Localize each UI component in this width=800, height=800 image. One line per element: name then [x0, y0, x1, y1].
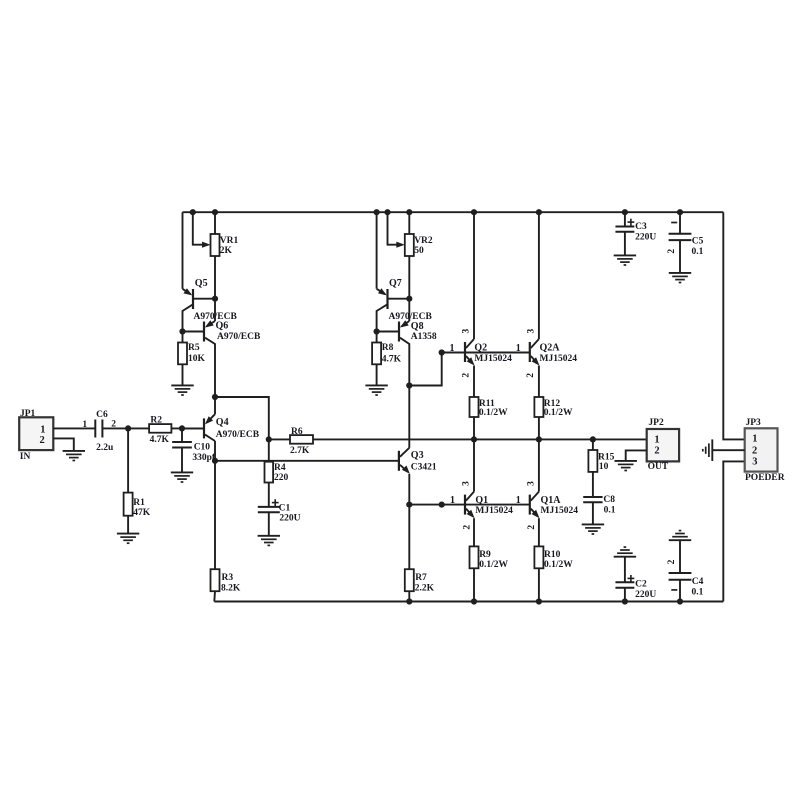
ground above C4: [669, 539, 691, 541]
wire R12 bottom lead: [538, 417, 540, 439]
svg-text:3: 3: [752, 457, 757, 468]
svg-text:0.1: 0.1: [692, 247, 704, 257]
node dot VR2 top at rail: [406, 209, 412, 215]
svg-text:Q6: Q6: [216, 321, 229, 332]
capacitor C2: [615, 581, 634, 583]
wire Q8 collector to Q2 base tie: [409, 353, 441, 386]
wire VR2 wiper: [388, 212, 398, 245]
svg-text:0.1/2W: 0.1/2W: [479, 560, 508, 570]
svg-text:Q2: Q2: [474, 343, 487, 354]
wire output rail: [313, 438, 647, 440]
svg-text:2: 2: [527, 525, 537, 530]
wire JP2 pin2 to ground: [626, 450, 647, 461]
svg-text:Q1A: Q1A: [541, 495, 562, 506]
svg-text:0.1/2W: 0.1/2W: [544, 408, 573, 418]
node dot C5 at rail: [677, 209, 683, 215]
node dot base tie lower: [439, 502, 445, 508]
connector JP2: [647, 429, 679, 461]
node dot R15 at output rail: [590, 436, 596, 442]
svg-text:R15: R15: [598, 452, 615, 462]
wire Q1/Q1A base bus: [409, 504, 530, 506]
svg-text:2: 2: [462, 373, 472, 378]
resistor R8: [372, 343, 381, 365]
svg-text:2: 2: [667, 559, 677, 564]
wire Q1A collector to output rail: [538, 439, 540, 491]
svg-text:0.1/2W: 0.1/2W: [544, 560, 573, 570]
resistor R7: [405, 569, 414, 591]
svg-text:OUT: OUT: [648, 462, 669, 472]
node dot C4 at bottom rail: [677, 598, 683, 604]
node dot Q6 base / R5 top: [179, 328, 185, 334]
node dot Q8 collector drive node: [406, 382, 412, 388]
svg-text:50: 50: [414, 246, 424, 256]
ground at JP3 pin2: [711, 439, 713, 461]
svg-text:2K: 2K: [220, 246, 233, 256]
wire VR2 top lead: [408, 212, 410, 234]
wire C4 top lead: [679, 540, 681, 573]
svg-text:1: 1: [752, 434, 757, 445]
ground at JP2 pin2: [615, 460, 637, 462]
wire R8 bottom lead: [376, 364, 378, 385]
wire C2 top lead: [624, 557, 626, 583]
transistor Q1A: [530, 492, 540, 519]
svg-text:220U: 220U: [635, 590, 656, 600]
svg-text:1: 1: [450, 343, 455, 354]
svg-text:MJ15024: MJ15024: [475, 506, 513, 516]
svg-text:1: 1: [516, 343, 521, 354]
svg-text:2: 2: [667, 249, 677, 254]
svg-text:C3: C3: [635, 222, 647, 232]
svg-text:Q7: Q7: [389, 278, 402, 289]
ground below C10: [171, 471, 193, 473]
wire C10 bottom lead: [181, 448, 183, 473]
ground below R1: [117, 533, 139, 535]
wire +V top rail: [183, 211, 724, 213]
node dot C2 at bottom rail: [622, 598, 628, 604]
wire C10 top lead: [181, 428, 183, 442]
node dot base tie upper: [439, 349, 445, 355]
node dot Q7 base / VR2 bottom: [406, 296, 412, 302]
capacitor C5: [669, 233, 692, 235]
node dot R11/Q1 at output rail: [471, 436, 477, 442]
node dot input bias: [125, 425, 131, 431]
node dot Q2 collector at rail: [471, 209, 477, 215]
svg-text:C3421: C3421: [411, 462, 437, 472]
ground above C2: [614, 556, 636, 558]
svg-text:1: 1: [82, 420, 87, 430]
wire R9 bottom lead: [473, 568, 475, 601]
wire -V bottom rail: [214, 601, 723, 603]
wire R15 to C8: [592, 472, 594, 497]
wire R8 top lead: [376, 332, 378, 343]
svg-text:JP3: JP3: [746, 418, 762, 428]
svg-text:Q4: Q4: [216, 417, 229, 428]
wire R6 node down to VAS line: [268, 439, 270, 460]
svg-text:C4: C4: [692, 577, 704, 587]
node dot R7 at bottom rail: [406, 598, 412, 604]
wire R6 node to R6: [269, 438, 290, 440]
wire Q1 emitter to R9: [473, 518, 475, 546]
connector JP1: [19, 417, 53, 450]
capacitor C8: [583, 496, 602, 498]
wire JP3 pin2 to ground: [712, 449, 744, 451]
wire VR1 bottom lead: [214, 256, 216, 299]
capacitor C4: [669, 572, 692, 574]
svg-text:MJ15024: MJ15024: [540, 354, 578, 364]
wire Q2A collector to rail: [538, 212, 540, 339]
svg-text:0.1: 0.1: [692, 587, 704, 597]
wire Q2A emitter to R12: [538, 366, 540, 397]
node dot VAS at Q4 collector: [212, 458, 218, 464]
svg-text:MJ15024: MJ15024: [474, 354, 512, 364]
wire left rail drop to Q5 emitter: [182, 212, 184, 289]
resistor R1: [124, 493, 133, 516]
svg-text:2.7K: 2.7K: [290, 446, 310, 456]
wire VR2 bottom lead: [408, 256, 410, 299]
svg-text:JP1: JP1: [20, 409, 36, 419]
ground below C5: [669, 272, 691, 274]
resistor R10: [534, 546, 543, 568]
svg-text:Q8: Q8: [411, 321, 424, 332]
svg-text:330pf: 330pf: [192, 453, 216, 463]
svg-text:R2: R2: [150, 415, 162, 425]
capacitor C6: [94, 420, 96, 438]
node dot R6 node: [266, 436, 272, 442]
capacitor C10: [172, 441, 192, 443]
svg-text:220: 220: [274, 473, 289, 483]
node dot R12/Q1A at output rail: [536, 436, 542, 442]
svg-text:2: 2: [40, 435, 45, 446]
VR2 wiper arrow: [396, 242, 405, 248]
VR1 wiper arrow: [202, 242, 211, 248]
svg-text:R8: R8: [382, 343, 394, 353]
wire C4 bottom lead: [679, 580, 681, 602]
potentiometer VR1: [211, 234, 220, 256]
svg-text:POEDER: POEDER: [745, 473, 785, 483]
svg-text:R3: R3: [222, 573, 234, 583]
wire Q3 emitter to R7: [408, 505, 410, 570]
svg-text:C5: C5: [692, 236, 704, 246]
svg-text:220U: 220U: [635, 233, 656, 243]
capacitor C2 plus sign: [628, 577, 635, 579]
transistor Q2: [465, 339, 475, 366]
svg-text:3: 3: [526, 481, 536, 486]
ground below C3: [614, 254, 636, 256]
node dot R10 at bottom rail: [536, 598, 542, 604]
wire C3 top lead: [624, 212, 626, 226]
node dot Q7 emitter at rail: [374, 209, 380, 215]
svg-text:Q2A: Q2A: [540, 343, 561, 354]
capacitor C4 minus sign: [671, 589, 677, 591]
resistor R4: [265, 462, 274, 483]
svg-text:R1: R1: [133, 498, 145, 508]
wire JP1 pin1 to C6: [53, 427, 95, 429]
wire R11 bottom lead: [473, 417, 475, 439]
svg-text:C8: C8: [603, 495, 615, 505]
node dot Q8 base / R8 top: [374, 328, 380, 334]
wire C1 bottom lead: [268, 512, 270, 536]
svg-text:IN: IN: [20, 452, 31, 462]
svg-text:Q3: Q3: [411, 450, 424, 461]
wire right rail drop to JP3 pin1: [723, 212, 744, 439]
capacitor C1: [258, 506, 280, 508]
wire R3 bottom lead to rail: [213, 591, 216, 601]
wire Q7 emitter from rail: [376, 212, 378, 289]
ground below R5: [171, 384, 193, 386]
svg-text:3: 3: [462, 481, 472, 486]
resistor R6: [290, 435, 313, 444]
transistor Q8: [377, 299, 410, 386]
svg-text:0.1: 0.1: [604, 505, 616, 515]
wire Q2/Q2A base bus: [442, 352, 530, 354]
wire C6 to R2: [102, 427, 149, 429]
resistor R3: [211, 569, 220, 591]
svg-text:2: 2: [526, 373, 536, 378]
wire R4 bottom lead: [268, 483, 270, 507]
svg-text:C10: C10: [194, 442, 211, 452]
svg-text:R10: R10: [544, 550, 561, 560]
capacitor C3: [615, 226, 634, 228]
wire Q2 collector to rail: [473, 212, 475, 339]
capacitor C3 plus sign: [628, 221, 635, 223]
node dot Q2A collector at rail: [536, 209, 542, 215]
svg-text:R5: R5: [188, 343, 200, 353]
resistor R11: [470, 397, 479, 417]
svg-text:0.1/2W: 0.1/2W: [479, 408, 508, 418]
transistor Q1: [465, 492, 475, 519]
wire VR1 top lead: [214, 212, 216, 234]
wire R1 bottom lead: [127, 516, 129, 534]
svg-text:3: 3: [462, 328, 472, 333]
svg-text:4.7K: 4.7K: [382, 354, 402, 364]
wire VAS line Q4 collector to Q3 base: [215, 460, 399, 462]
wire JP1 pin2 to ground: [53, 438, 74, 451]
wire C5 bottom lead: [679, 240, 681, 273]
ground below R8: [365, 384, 387, 386]
svg-text:Q5: Q5: [195, 278, 208, 289]
wire Q1A emitter to R10: [538, 518, 540, 546]
svg-text:2: 2: [463, 525, 473, 530]
transistor Q3: [399, 448, 410, 474]
svg-text:1: 1: [654, 435, 659, 446]
ground below C1: [258, 535, 280, 537]
svg-text:3: 3: [527, 328, 537, 333]
svg-text:JP2: JP2: [648, 418, 664, 428]
node dot VR2 wiper at rail: [384, 209, 390, 215]
svg-text:8.2K: 8.2K: [221, 583, 241, 593]
wire Q6 collector feedback to R6 node: [215, 397, 269, 439]
capacitor C1 plus sign: [272, 502, 279, 504]
svg-text:C1: C1: [279, 504, 291, 514]
wire Q4 collector down to R3: [214, 441, 216, 569]
svg-text:10K: 10K: [188, 354, 206, 364]
transistor Q4: [182, 397, 215, 441]
svg-text:220U: 220U: [279, 513, 300, 523]
svg-text:4.7K: 4.7K: [150, 435, 170, 445]
transistor Q2A: [530, 339, 540, 366]
svg-text:A1358: A1358: [411, 332, 437, 342]
node dot Q5 base / VR1 bottom: [212, 296, 218, 302]
node dot Q6 collector to feedback: [212, 394, 218, 400]
svg-text:VR1: VR1: [220, 236, 239, 246]
resistor R2: [149, 424, 171, 433]
wire R15 top lead: [592, 439, 594, 450]
svg-text:R9: R9: [479, 550, 491, 560]
svg-text:R6: R6: [291, 427, 303, 437]
node dot VR1 top at rail: [212, 209, 218, 215]
wire R1 top lead: [127, 428, 129, 492]
svg-text:C2: C2: [635, 580, 647, 590]
wire R5 top lead: [182, 332, 184, 343]
svg-text:R4: R4: [274, 463, 286, 473]
wire C2 bottom lead: [624, 588, 626, 602]
wire R2 to Q4 base: [171, 427, 204, 429]
ground below C8: [582, 523, 604, 525]
capacitor C5 minus sign: [671, 222, 677, 224]
potentiometer VR2: [405, 234, 414, 256]
svg-text:47K: 47K: [133, 508, 151, 518]
transistor Q5: [183, 288, 216, 331]
resistor R5: [178, 343, 187, 365]
svg-text:2: 2: [752, 445, 757, 456]
svg-text:2: 2: [654, 446, 659, 457]
node dot VR1 wiper at rail: [190, 209, 196, 215]
svg-text:MJ15024: MJ15024: [541, 506, 579, 516]
transistor Q7: [377, 288, 410, 331]
connector JP3: [745, 428, 778, 471]
svg-text:2.2K: 2.2K: [415, 583, 435, 593]
node dot Q3 emitter / Q1 base: [406, 502, 412, 508]
svg-text:C6: C6: [96, 410, 108, 420]
wire C3 bottom lead: [624, 232, 626, 256]
svg-text:A970/ECB: A970/ECB: [217, 332, 261, 342]
svg-text:2.2u: 2.2u: [96, 443, 114, 453]
svg-text:1: 1: [40, 425, 45, 436]
wire VR1 wiper: [193, 212, 204, 245]
transistor Q6: [183, 299, 216, 397]
wire Q1 collector to output rail: [473, 439, 475, 491]
svg-text:R7: R7: [415, 573, 427, 583]
wire R7 bottom lead: [408, 591, 410, 601]
resistor R15: [588, 450, 597, 472]
svg-text:VR2: VR2: [414, 236, 433, 246]
ground at JP1 pin2: [63, 450, 85, 452]
wire R10 bottom lead: [538, 568, 540, 601]
wire Q3 collector up to drive node: [408, 386, 410, 448]
wire C8 bottom lead: [592, 502, 594, 524]
node dot Q4 base / C10: [179, 425, 185, 431]
node dot C3 at rail: [622, 209, 628, 215]
svg-text:10: 10: [599, 462, 609, 472]
node dot R9 at bottom rail: [471, 598, 477, 604]
resistor R9: [470, 546, 479, 568]
wire Q2 emitter to R11: [473, 366, 475, 397]
wire bottom rail rise to JP3 pin3: [723, 461, 744, 601]
resistor R12: [534, 397, 543, 417]
svg-text:A970/ECB: A970/ECB: [216, 430, 260, 440]
wire R5 bottom lead: [182, 364, 184, 385]
wire Q3 emitter down: [408, 474, 410, 505]
wire C5 top lead: [679, 212, 681, 234]
